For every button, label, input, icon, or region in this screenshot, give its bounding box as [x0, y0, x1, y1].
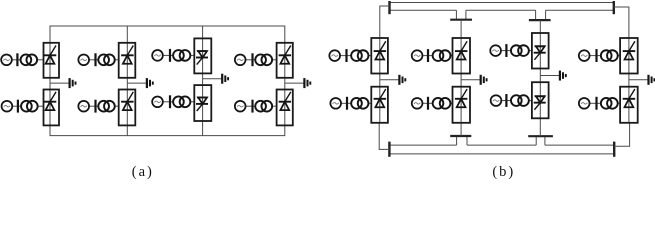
wire S-b4t AC source to transformer [589, 55, 601, 57]
valve bridge V-b1t [371, 38, 388, 74]
wire (b3) valve column [539, 33, 541, 118]
thyristor V-b2t (conducting up) [455, 41, 468, 59]
wire (b2) top bus drop right [465, 10, 467, 20]
thyristor V-a4b (conducting up) [279, 92, 292, 110]
wire (a2) valve column [126, 43, 128, 126]
valve bridge V-a3b [194, 85, 211, 121]
thyristor V-a2t (conducting up) [121, 46, 134, 64]
bus terminal bar bottom-right (b) [613, 142, 615, 157]
AC source S-b3t [490, 45, 501, 56]
wire (b1) to top bus [380, 6, 390, 38]
terminal bar S-b2b [427, 97, 429, 110]
wire S-b1t transformer to valve [368, 55, 371, 57]
wire S-b3t transformer to valve [529, 50, 532, 52]
wire (a) bottom bus riser col2 [126, 125, 128, 135]
transformer S-b3b [511, 95, 529, 106]
thyristor V-a4t (conducting up) [279, 46, 292, 64]
wire (b3) bottom bus rise right [544, 136, 546, 145]
transformer S-a1b [21, 101, 38, 112]
transformer S-b2b [433, 98, 451, 109]
valve bridge V-a4b [277, 90, 293, 126]
wire (b2) valve column [460, 38, 462, 123]
wire E-b2 neutral branch [461, 79, 480, 81]
terminal bar S-a4t [251, 53, 253, 66]
ground E-a3 [222, 74, 228, 84]
wire S-b2b transformer to valve [450, 102, 452, 104]
valve bridge V-b1b [371, 87, 388, 123]
AC source S-b2t [412, 50, 423, 61]
wire E-a3 neutral branch [203, 78, 222, 80]
DC pole line P1 bottom left segment (b) [389, 144, 456, 146]
AC source S-b1t [329, 50, 340, 61]
DC pole line P1 bottom right segment (b) [545, 144, 614, 146]
transformer S-a2t [98, 54, 114, 65]
wire S-a1t transformer to valve [37, 59, 43, 61]
wire S-b3b AC source to transformer [501, 100, 511, 102]
wire (b3) valve to junction [539, 118, 541, 136]
valve bridge V-a2b [119, 90, 136, 126]
transformer S-a2b [98, 101, 114, 112]
thyristor V-b1t (conducting up) [374, 41, 387, 59]
transformer S-a4b [255, 101, 272, 112]
transformer S-a4t [255, 54, 272, 65]
wire S-a3t transformer to valve [190, 54, 194, 56]
DC pole line P2 top left segment (b) [390, 9, 457, 11]
bus terminal bar top-right (b) [613, 1, 615, 14]
wire (a4) valve column [284, 43, 286, 126]
thyristor V-b3t (conducting down) [534, 46, 546, 60]
wire S-a4b AC source to transformer [245, 105, 255, 107]
terminal bar S-a2b [94, 100, 96, 113]
terminal bar S-b3t [505, 44, 507, 57]
wire S-a2t AC source to transformer [89, 59, 98, 61]
wire S-a2t transformer to valve [115, 59, 119, 61]
wire (a) top bus drop col3 [202, 26, 204, 38]
wire E-b3 neutral branch [540, 75, 559, 77]
wire S-b4b AC source to transformer [589, 102, 601, 104]
DC pole line P2 top middle segment (b) [466, 9, 536, 11]
AC source S-a4b [235, 101, 246, 112]
terminal bar S-b4t [595, 49, 597, 62]
valve bridge V-a1b [44, 90, 60, 126]
transformer S-a3b [173, 96, 190, 107]
junction bar (b2) bottom [450, 135, 471, 137]
ground E-a4 [304, 78, 310, 88]
thyristor V-a3b (conducting down) [196, 98, 208, 112]
wire E-a2 neutral branch [127, 82, 146, 84]
wire (b2) bottom bus rise left [456, 136, 458, 145]
figure (b): parallel-connected bipolar HVDC converter configuration [329, 1, 654, 157]
wire S-b3t AC source to transformer [501, 50, 511, 52]
AC source S-a2t [78, 54, 89, 65]
wire S-a2b AC source to transformer [89, 105, 98, 107]
ground E-b3 [560, 71, 566, 81]
valve bridge V-a4t [277, 43, 293, 78]
thyristor V-b1b (conducting up) [374, 89, 387, 107]
wire S-b2t AC source to transformer [422, 55, 432, 57]
wire S-a2b transformer to valve [115, 105, 119, 107]
junction bar (b3) top [529, 19, 551, 21]
terminal bar S-b4b [595, 97, 597, 110]
wire S-a3t AC source to transformer [163, 54, 173, 56]
transformer S-b1t [351, 50, 368, 61]
valve bridge V-b4t [620, 38, 638, 74]
wire (b2) top bus drop left [455, 10, 457, 20]
ground E-b1 [399, 75, 405, 85]
figure (a): series-connected bipolar HVDC converter configuration [1, 26, 310, 136]
AC source S-a4t [235, 54, 246, 65]
AC source S-b2b [412, 98, 423, 109]
wire (b1) valve column [379, 38, 381, 123]
junction bar (b3) bottom [528, 135, 553, 137]
AC source S-b4b [579, 98, 590, 109]
AC source S-a1t [1, 54, 12, 65]
wire (b4) to top bus [614, 7, 629, 38]
AC source S-a2b [78, 101, 89, 112]
wire S-b1b AC source to transformer [341, 102, 351, 104]
wire E-b1 neutral branch [380, 79, 399, 81]
AC source S-a3t [152, 50, 163, 61]
bus terminal bar top-left (b) [388, 1, 390, 14]
wire (b3) top bus drop left [535, 10, 537, 20]
valve bridge V-b3t [532, 33, 549, 69]
wire (a) bottom bus riser col3 [202, 121, 204, 136]
DC bottom bus (a) [50, 125, 285, 135]
thyristor V-a2b (conducting up) [121, 92, 134, 110]
DC top bus (a) [50, 26, 285, 43]
terminal bar S-a1b [17, 100, 19, 113]
thyristor V-a3t (conducting down) [196, 51, 208, 65]
DC pole line P1 top (b) [390, 2, 614, 4]
svg-text:(b): (b) [492, 164, 515, 179]
transformer S-b2t [433, 50, 451, 61]
transformer S-b3t [511, 45, 529, 56]
wire (b2) valve to junction [460, 123, 462, 136]
wire S-a1b transformer to valve [38, 105, 44, 107]
wire E-a1 neutral branch [50, 82, 69, 84]
wire S-a3b transformer to valve [190, 101, 194, 103]
transformer S-a3t [173, 50, 190, 61]
wire (b3) bottom bus rise left [535, 136, 537, 145]
ground E-b2 [481, 75, 487, 85]
wire S-a1b AC source to transformer [12, 105, 21, 107]
wire (b3) top bus drop right [545, 10, 547, 20]
transformer S-a1t [21, 54, 38, 65]
wire S-b4b transformer to valve [618, 102, 620, 104]
wire S-a4b transformer to valve [272, 105, 277, 107]
wire S-b2b AC source to transformer [422, 102, 432, 104]
valve bridge V-b2b [453, 87, 471, 123]
valve bridge V-b2t [453, 38, 471, 74]
transformer S-b4t [601, 50, 618, 61]
terminal bar S-a2t [94, 53, 96, 66]
AC source S-b3b [491, 95, 502, 106]
ground E-a1 [70, 78, 76, 88]
wire S-b1t AC source to transformer [340, 55, 351, 57]
ground E-a2 [147, 78, 153, 88]
DC pole line P2 top right segment (b) [546, 9, 614, 11]
transformer S-b1b [351, 98, 368, 109]
wire S-a1t AC source to transformer [12, 59, 21, 61]
terminal bar S-b3b [505, 94, 507, 107]
valve bridge V-a3t [194, 38, 211, 73]
terminal bar S-b1t [345, 49, 347, 62]
svg-text:(a): (a) [132, 164, 154, 179]
transformer S-b4b [601, 98, 618, 109]
valve bridge V-b3b [532, 82, 549, 118]
valve bridge V-b4b [620, 87, 638, 123]
junction bar (b2) top [450, 19, 472, 21]
wire E-a4 neutral branch [285, 82, 304, 84]
ground E-b4 [649, 75, 655, 85]
terminal bar S-a3b [169, 95, 171, 108]
wire (b4) to bottom bus [614, 123, 629, 146]
thyristor V-b4b (conducting up) [623, 89, 636, 107]
terminal bar S-b1b [346, 97, 348, 110]
AC source S-a3b [152, 96, 163, 107]
thyristor V-a1b (conducting up) [44, 92, 57, 110]
wire (a) top bus drop col2 [126, 26, 128, 43]
wire (b1) to bottom bus [379, 123, 389, 150]
valve bridge V-a2t [119, 43, 136, 78]
AC source S-a1b [2, 101, 13, 112]
thyristor V-a1t (conducting up) [44, 46, 57, 64]
thyristor V-b3b (conducting down) [534, 96, 546, 110]
AC source S-b1b [330, 98, 341, 109]
wire S-b4t transformer to valve [618, 55, 620, 57]
wire (b3) junction to valve [539, 20, 541, 32]
wire (a3) valve column [202, 38, 204, 121]
terminal bar S-a4b [251, 100, 253, 113]
bus terminal bar bottom-left (b) [388, 142, 390, 157]
wire E-b4 neutral branch [629, 79, 648, 81]
wire (b4) valve column [628, 38, 630, 123]
wire (b2) junction to valve [460, 20, 462, 38]
DC pole line P2 bottom (b) [389, 153, 614, 155]
DC pole line P1 bottom middle segment (b) [467, 144, 536, 146]
wire S-b1b transformer to valve [368, 102, 371, 104]
thyristor V-b4t (conducting up) [623, 41, 636, 59]
valve bridge V-a1t [44, 43, 60, 78]
wire S-b2t transformer to valve [450, 55, 452, 57]
terminal bar S-a1t [16, 53, 18, 66]
wire S-a3b AC source to transformer [163, 101, 173, 103]
AC source S-b4t [579, 50, 590, 61]
wire (b2) bottom bus rise right [466, 136, 468, 145]
terminal bar S-a3t [169, 49, 171, 62]
wire S-b3b transformer to valve [529, 100, 532, 102]
wire S-a4t transformer to valve [272, 59, 277, 61]
thyristor V-b2b (conducting up) [455, 89, 468, 107]
wire (a1) valve column [49, 43, 51, 126]
terminal bar S-b2t [427, 49, 429, 62]
wire S-a4t AC source to transformer [245, 59, 255, 61]
